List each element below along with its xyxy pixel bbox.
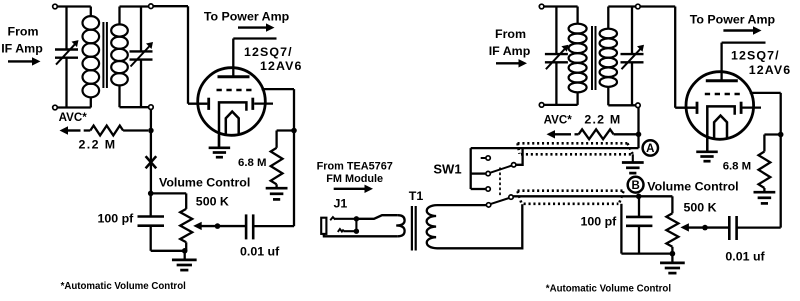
wire: secondary top to diode plate (left): [153, 5, 188, 7]
transformer T1 primary winding: [396, 215, 404, 236]
terminal bottom-left (right transformer): [539, 103, 544, 108]
svg-text:*Automatic Volume Control: *Automatic Volume Control: [546, 283, 671, 294]
svg-text:T1: T1: [409, 189, 424, 203]
ground: cable A shield: [632, 154, 634, 162]
jack J1 tip contact: [330, 217, 335, 220]
svg-text:From: From: [495, 27, 526, 41]
IF transformer (right) : secondary tuning capacitor: [631, 7, 633, 55]
heater filament: [226, 112, 239, 134]
svg-text:J1: J1: [334, 197, 348, 211]
wire: right diode plate stub (left): [254, 102, 273, 104]
potentiometer 500K (left): [180, 209, 192, 242]
resistor 6.8M (right): [759, 152, 771, 189]
switch SW1 pole 1: [486, 171, 490, 175]
svg-text:A: A: [646, 143, 654, 155]
svg-text:2.2 M: 2.2 M: [79, 138, 117, 152]
node B circle: [628, 177, 644, 193]
potentiometer 500K (right): [666, 213, 678, 247]
svg-text:500 K: 500 K: [196, 195, 229, 209]
wire: node to pot (left): [151, 192, 187, 194]
svg-text:0.01 uf: 0.01 uf: [240, 244, 280, 258]
X cut mark (left): [146, 156, 157, 168]
grid (dashed): [217, 89, 252, 92]
shielded cable to node A : shield bottom (dotted): [521, 153, 634, 156]
wire: cap bottom rail (right): [621, 252, 672, 254]
ground: volume pot (left): [184, 251, 186, 260]
wire: cable B shield drain to ground rail: [620, 204, 622, 254]
shielded cable to node B : shield bottom (dotted): [524, 203, 619, 206]
svg-text:Volume Control: Volume Control: [159, 176, 250, 190]
cathode: [707, 106, 734, 152]
plate: [218, 75, 250, 78]
diode plate right: [740, 102, 743, 114]
wire: T1 secondary bottom to shield: [437, 204, 522, 248]
heater filament: [714, 116, 727, 138]
IF transformer (left) : primary tuning capacitor: [65, 7, 67, 50]
svg-text:*Automatic Volume Control: *Automatic Volume Control: [61, 281, 186, 292]
switch SW1 blade 2: [491, 198, 509, 204]
shielded cable to node A : shield left end (dotted): [518, 143, 520, 154]
tube envelope: [198, 68, 266, 136]
svg-text:IF Amp: IF Amp: [1, 42, 43, 56]
tube envelope: [686, 72, 754, 140]
terminal top-right (left transformer): [149, 4, 154, 9]
wire: T1 secondary top to SW1: [437, 204, 486, 206]
svg-text:0.01 uf: 0.01 uf: [725, 250, 765, 264]
capacitor 0.01uf (right): [728, 216, 731, 240]
wire: AVC rail down (left): [150, 109, 152, 193]
arrow: input from IF amp (left): [8, 60, 33, 62]
node: wiper wire dot (right): [702, 225, 708, 231]
wire: throw 1 to cable (corner): [516, 148, 522, 165]
svg-text:6.8 M: 6.8 M: [723, 161, 752, 173]
arrow: AVC line (right): [554, 133, 571, 135]
wire: node B to pot (right): [639, 195, 673, 197]
IF transformer (right) : core: [591, 26, 593, 90]
node A circle: [643, 140, 658, 155]
shielded cable to node A : shield right end (dotted): [627, 143, 632, 154]
transformer T1 secondary winding: [427, 205, 437, 248]
terminal bottom-right (left transformer): [149, 105, 154, 110]
ground: cathode (right): [696, 150, 718, 153]
switch SW1 frame: [470, 148, 472, 189]
svg-text:12AV6: 12AV6: [260, 59, 302, 73]
svg-text:From TEA5767: From TEA5767: [317, 160, 393, 172]
svg-text:6.8 M: 6.8 M: [238, 157, 267, 169]
switch SW1 gang link (dashed): [499, 168, 501, 197]
arrow: input from IF amp (right): [496, 62, 520, 64]
node: pot bottom junction (right): [670, 251, 676, 257]
transformer T1 core: [411, 206, 413, 251]
wire: junction to 6.8M (right): [764, 133, 780, 135]
shielded cable to node A : wire: [471, 147, 639, 149]
resistor 2.2M (left): [84, 129, 91, 131]
svg-text:Volume Control: Volume Control: [647, 179, 738, 193]
node: pot bottom junction (left): [182, 248, 188, 254]
shielded cable to node B : shield left end (dotted): [518, 191, 522, 203]
IF transformer (left) : primary coil: [57, 5, 91, 7]
switch SW1 pole 2: [486, 203, 490, 207]
wire: plate to power amp (right): [720, 43, 722, 81]
node: volume control top junction (right): [636, 194, 642, 200]
terminal top-left (right transformer): [539, 4, 544, 9]
capacitor 0.01uf (left): [245, 214, 248, 239]
terminal top-left (left transformer): [53, 4, 58, 9]
svg-text:AVC*: AVC*: [59, 111, 88, 124]
wire: plate to power amp (left): [232, 39, 234, 77]
wire: grid to coupling cap (right): [750, 92, 781, 94]
svg-text:100 pf: 100 pf: [98, 212, 135, 226]
arrow: AVC line (left): [67, 129, 81, 131]
ground: volume pot (right): [671, 254, 673, 263]
jack J1 body: [321, 218, 326, 234]
cathode: [219, 102, 246, 148]
shielded cable to node B : shield top (dotted): [518, 189, 624, 192]
svg-text:12SQ7/: 12SQ7/: [731, 49, 780, 63]
IF transformer (left) : secondary tuning capacitor: [140, 7, 142, 52]
terminal bottom-right (right transformer): [636, 103, 641, 108]
switch SW1 upper stub contact: [481, 157, 486, 159]
node: volume control top junction (left): [148, 191, 154, 197]
ground: 6.8M (right): [754, 191, 776, 194]
capacitor 100pf (left): [150, 193, 152, 216]
wire: jack to T1 primary top: [356, 215, 397, 219]
svg-text:IF Amp: IF Amp: [489, 44, 531, 58]
node: wiper wire dot (left): [215, 223, 221, 229]
svg-text:12AV6: 12AV6: [749, 63, 791, 77]
arrow: to power amp (left): [238, 26, 267, 28]
wire: secondary top to diode plate (right): [640, 5, 675, 7]
svg-text:2.2 M: 2.2 M: [584, 113, 621, 127]
IF transformer (left) : secondary coil: [118, 7, 120, 25]
svg-text:100 pf: 100 pf: [581, 215, 618, 229]
wire: grid to coupling cap (left): [262, 88, 295, 90]
node: jack tip dot: [354, 216, 359, 221]
ground: 6.8M (left): [266, 187, 288, 190]
svg-text:12SQ7/: 12SQ7/: [244, 45, 293, 59]
wire: right diode plate stub (right): [742, 106, 761, 108]
IF transformer (right) : primary tuning capacitor: [555, 7, 557, 55]
node: AVC/2.2M junction (right): [636, 132, 642, 138]
wire: junction to 6.8M (left): [277, 129, 294, 131]
wire: cathode to ground (right): [706, 139, 708, 152]
switch SW1 throw 1: [512, 163, 516, 167]
switch SW1 contact c1: [486, 156, 490, 160]
svg-text:FM Module: FM Module: [326, 173, 383, 185]
grid (dashed): [705, 93, 740, 96]
wire: cap bottom rail (left): [151, 250, 185, 252]
svg-text:To Power Amp: To Power Amp: [690, 12, 776, 26]
IF transformer (left) : core: [102, 22, 104, 88]
IF transformer (right) : secondary coil: [607, 7, 609, 29]
terminal bottom-left (left transformer): [53, 105, 58, 110]
capacitor 100pf (right): [638, 196, 640, 217]
node: grid/6.8M junction (right): [778, 132, 784, 138]
wire: tip-ring tie: [355, 219, 357, 231]
wiper arrow (right): [680, 223, 689, 231]
shielded cable to node B : shield right end (dotted): [620, 191, 624, 202]
resistor 6.8M (left): [271, 148, 283, 185]
wire: cathode to ground (left): [218, 135, 220, 148]
wire: jack sleeve to T1: [323, 234, 325, 236]
node: grid/6.8M junction (left): [291, 128, 297, 134]
ground: cathode (left): [209, 146, 231, 149]
jack J1 ring contact: [338, 229, 344, 232]
switch SW1 throw 2: [509, 195, 513, 199]
shielded cable to node B : wire: [513, 195, 639, 197]
diode plate right: [251, 98, 254, 110]
svg-text:SW1: SW1: [433, 162, 461, 177]
arrow: to power amp (right): [723, 29, 754, 31]
IF transformer (right) : primary coil: [544, 5, 578, 7]
svg-text:From: From: [8, 25, 39, 39]
node: jack ring dot: [354, 229, 359, 234]
resistor 2.2M (right): [575, 133, 579, 135]
diode plate left: [207, 98, 210, 110]
switch SW1 blade 1: [490, 166, 511, 173]
shielded cable to node A : shield top (dotted): [518, 142, 628, 145]
svg-text:B: B: [631, 180, 639, 192]
svg-text:AVC*: AVC*: [544, 114, 573, 127]
node: AVC/2.2M junction (left): [148, 128, 154, 134]
svg-text:500 K: 500 K: [684, 201, 717, 215]
svg-text:To Power Amp: To Power Amp: [204, 10, 290, 24]
terminal top-right (right transformer): [636, 4, 641, 9]
wiper arrow (left): [193, 222, 202, 230]
plate: [706, 79, 738, 82]
arrow: from FM module (middle): [334, 188, 366, 190]
wire: AVC rail down to node A (right): [637, 107, 639, 148]
switch SW1 contact c3: [486, 187, 490, 191]
diode plate left: [696, 102, 699, 114]
